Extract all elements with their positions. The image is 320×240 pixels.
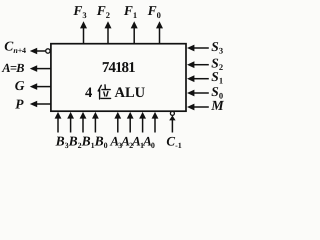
wire Cn+4 output	[30, 48, 46, 55]
wire B3 input	[55, 112, 62, 133]
inverter bubble on Cn+4	[46, 49, 50, 53]
wire F3 output	[80, 21, 87, 43]
svg-text:A=B: A=B	[1, 61, 24, 75]
wire M input	[187, 104, 209, 111]
label 4 位 ALU	[85, 85, 146, 101]
wire A0 input	[152, 112, 159, 133]
wire B0 input	[92, 112, 99, 133]
svg-text:74181: 74181	[102, 60, 135, 76]
IC body U1 74181	[51, 44, 186, 112]
wire S2 input	[187, 61, 209, 68]
svg-text:M: M	[210, 99, 224, 114]
wire G output	[30, 83, 51, 90]
wire P output	[30, 101, 51, 108]
svg-text:F0: F0	[147, 3, 161, 20]
wire F1 output	[131, 21, 138, 43]
wire B2 input	[67, 112, 74, 133]
wire C-1 input	[169, 115, 175, 132]
inverter bubble on C-1	[170, 111, 174, 115]
svg-text:C-1: C-1	[166, 134, 181, 151]
wire A1 input	[139, 112, 146, 133]
wire A2 input	[127, 112, 134, 133]
wire B1 input	[80, 112, 87, 133]
wire S0 input	[187, 90, 209, 97]
wire F2 output	[105, 21, 112, 43]
svg-text:F1: F1	[123, 3, 137, 20]
wire F0 output	[156, 21, 163, 43]
svg-text:P: P	[15, 97, 24, 112]
wire A3 input	[114, 112, 121, 133]
svg-text:B3B2B1B0: B3B2B1B0	[55, 134, 108, 151]
wire S3 input	[187, 45, 209, 52]
svg-text:F3: F3	[72, 3, 86, 20]
wire S1 input	[187, 75, 209, 82]
svg-text:G: G	[15, 78, 25, 93]
svg-text:S3: S3	[211, 39, 223, 56]
svg-text:4: 4	[85, 85, 92, 101]
svg-text:S0: S0	[211, 84, 223, 101]
svg-text:A3A2A1A0: A3A2A1A0	[109, 134, 154, 151]
svg-text:ALU: ALU	[115, 85, 146, 101]
hanzi 位 strokes	[98, 85, 110, 99]
svg-text:F2: F2	[96, 3, 110, 20]
svg-text:Cn+4: Cn+4	[4, 38, 26, 55]
wire A=B output	[30, 65, 51, 72]
